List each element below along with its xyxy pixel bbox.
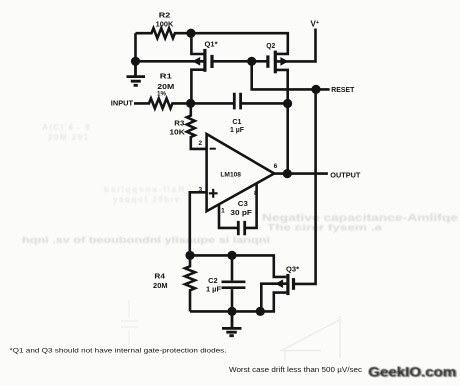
svg-text:hqni .sv of beoubondni ylisaup: hqni .sv of beoubondni ylisaupe si lanqn… [22,235,270,246]
svg-text:C3: C3 [238,201,248,208]
wire left vertical from R2 to ground node [134,33,137,61]
svg-text:R3: R3 [174,121,184,128]
svg-text:20M: 20M [153,283,168,290]
node dot output [283,169,292,178]
ground G1 [127,61,146,85]
ground G2 [222,311,242,335]
svg-text:Q2: Q2 [266,43,275,50]
node dot R2/ground junction [131,57,140,66]
svg-text:100K: 100K [156,22,174,29]
svg-text:Worst case drift less than 500: Worst case drift less than 500 µV/sec [229,367,363,374]
svg-text:OUTPUT: OUTPUT [330,170,360,179]
ghost text artifact middle band [22,235,270,246]
svg-text:A(C) 4 - 8: A(C) 4 - 8 [42,123,91,132]
wire gates to RESET line [252,61,330,89]
node dot input junction [186,99,195,108]
resistor R3 [187,103,207,148]
wire pin3 to lower rail [190,192,207,255]
capacitor C2 [222,255,246,311]
node dot lower rail left [185,251,194,260]
ghost text artifact left-middle [42,123,184,204]
node dot RESET [311,85,320,94]
svg-text:GeekIO.com: GeekIO.com [368,363,456,379]
ghost schematic artifact bottom-left [121,300,138,345]
node dot Q3 substrate [256,307,265,316]
svg-text:30 pF: 30 pF [230,210,252,217]
svg-text:INPUT: INPUT [111,99,134,108]
transistor Q3 [190,89,316,311]
resistor R4 [185,255,195,311]
svg-text:1%: 1% [157,91,166,98]
watermark GeekIO.com [368,363,458,380]
svg-text:Q3*: Q3* [286,267,299,274]
transistor Q1 [191,33,251,103]
resistor R1 [134,98,191,108]
capacitor C3 with pin1/pin8 wires [219,184,257,236]
svg-text:*Q1 and Q3 should not have int: *Q1 and Q3 should not have internal gate… [10,347,227,354]
node dot R2 right / top rail [186,29,195,38]
svg-text:10K: 10K [169,129,185,136]
svg-text:The cirer fysem .a: The cirer fysem .a [267,223,383,233]
node dot C1 right [283,99,292,108]
node dot C2 bottom [227,307,236,316]
wire top rail to Q2 source [191,33,288,54]
wire output [274,172,328,175]
ghost text artifact right-middle [262,212,458,233]
wire Q2 drain down to output node [275,70,287,174]
svg-text:1 µF: 1 µF [230,127,245,134]
svg-text:R2: R2 [159,12,171,19]
capacitor C1 [191,93,288,110]
wire lower top rail to Q3 source [190,255,286,277]
svg-text:1: 1 [221,208,225,215]
svg-text:C2: C2 [208,278,218,285]
ghost triangle artifact bottom-right [281,316,341,360]
svg-text:1 µF: 1 µF [206,286,222,293]
wire substrate of Q1 to ground node [136,60,204,63]
transistor Q2 [252,29,316,74]
node dot Q1/Q2 gates [247,57,256,66]
svg-text:LM108: LM108 [220,171,241,178]
svg-text:Q1*: Q1* [205,42,218,49]
op-amp U1 LM108 [207,134,275,211]
resistor R2 [136,28,192,38]
svg-text:RESET: RESET [331,85,354,94]
svg-text:2: 2 [198,140,202,147]
node dot C2 top [227,251,236,260]
svg-text:6: 6 [274,163,278,170]
svg-text:R1: R1 [160,74,172,81]
svg-text:R4: R4 [154,273,165,280]
svg-text:C1: C1 [232,119,241,126]
